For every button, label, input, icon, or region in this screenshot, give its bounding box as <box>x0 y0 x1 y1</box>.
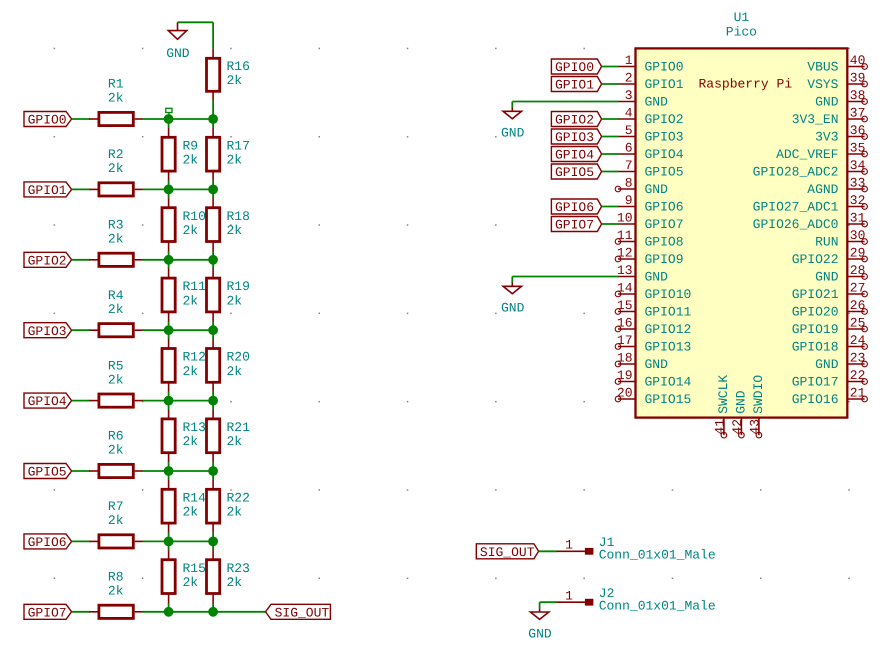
svg-text:2k: 2k <box>227 434 243 449</box>
U1 pin 16 (GPIO12) <box>615 316 691 338</box>
wire GPIO0 label to R1 <box>72 118 90 120</box>
svg-text:R2: R2 <box>108 147 124 162</box>
global label GPIO6 (ladder input) <box>24 534 72 550</box>
svg-text:14: 14 <box>617 281 633 296</box>
power symbol GND (U1 pin 3) <box>501 102 525 141</box>
U1 pin 31 (GPIO26_ADC0) <box>753 211 868 233</box>
svg-text:Conn_01x01_Male: Conn_01x01_Male <box>599 599 716 614</box>
resistor R5 2k <box>89 358 143 407</box>
svg-text:GPIO11: GPIO11 <box>645 305 692 320</box>
wire node row 3 down to R20 <box>212 330 214 339</box>
svg-text:GPIO17: GPIO17 <box>792 375 839 390</box>
svg-text:2k: 2k <box>183 153 199 168</box>
junction node row 6 col B <box>209 537 218 546</box>
svg-text:R11: R11 <box>183 279 207 294</box>
wire GND to U1 pin 13 <box>512 276 618 278</box>
wire R7 to ladder node row 6 <box>143 540 214 542</box>
U1 pin 28 (GND) <box>815 263 867 285</box>
svg-text:GPIO26_ADC0: GPIO26_ADC0 <box>753 217 839 232</box>
svg-text:GND: GND <box>734 390 749 414</box>
svg-text:2k: 2k <box>108 161 124 176</box>
wire GPIO1 label to R2 <box>72 188 90 190</box>
svg-text:2k: 2k <box>227 73 243 88</box>
global label GPIO5 (to U1 pin 7) <box>551 164 601 180</box>
svg-text:GND: GND <box>166 46 190 61</box>
resistor R8 2k <box>89 570 143 619</box>
svg-text:GPIO2: GPIO2 <box>28 253 67 268</box>
wire GND to J2 pin 1 <box>540 601 557 603</box>
svg-text:R9: R9 <box>183 138 199 153</box>
svg-text:GND: GND <box>645 95 669 110</box>
U1 pin 33 (AGND) <box>807 176 867 198</box>
wire node row 2 down to R19 <box>212 260 214 269</box>
svg-text:2k: 2k <box>227 153 243 168</box>
svg-text:26: 26 <box>850 298 866 313</box>
svg-text:2k: 2k <box>183 505 199 520</box>
svg-text:RUN: RUN <box>815 235 838 250</box>
wire R9 down to node row 1 <box>168 181 170 190</box>
wire GPIO3 label to R4 <box>72 329 90 331</box>
svg-text:GPIO6: GPIO6 <box>28 535 67 550</box>
svg-text:R1: R1 <box>108 77 124 92</box>
wire R2 to ladder node row 1 <box>143 188 214 190</box>
wire R19 down to node row 3 <box>212 321 214 330</box>
svg-text:AGND: AGND <box>807 182 838 197</box>
svg-text:GPIO10: GPIO10 <box>645 287 692 302</box>
svg-text:R15: R15 <box>183 561 206 576</box>
U1 pin 32 (GPIO27_ADC1) <box>753 193 868 215</box>
svg-text:2k: 2k <box>108 513 124 528</box>
svg-text:SWCLK: SWCLK <box>716 375 731 414</box>
svg-text:R16: R16 <box>227 59 250 74</box>
svg-text:VSYS: VSYS <box>807 77 838 92</box>
svg-text:34: 34 <box>850 158 866 173</box>
svg-text:GND: GND <box>815 95 839 110</box>
svg-text:VBUS: VBUS <box>807 60 838 75</box>
svg-text:23: 23 <box>850 351 866 366</box>
svg-text:GND: GND <box>645 182 669 197</box>
global label GPIO0 (ladder input) <box>24 112 72 128</box>
svg-text:U1: U1 <box>734 10 750 25</box>
svg-text:19: 19 <box>617 368 633 383</box>
global label GPIO1 (to U1 pin 2) <box>551 77 601 93</box>
U1 pin 5 (GPIO3) <box>618 123 684 145</box>
U1 pin 41 (SWCLK) <box>713 375 732 438</box>
svg-text:GPIO7: GPIO7 <box>645 217 684 232</box>
svg-text:GPIO8: GPIO8 <box>645 235 684 250</box>
junction node row 0 col A <box>164 115 173 124</box>
junction node row 5 col A <box>164 467 173 476</box>
net anchor square at node row 0 <box>166 108 172 119</box>
junction node row 7 col B <box>209 607 218 616</box>
U1 pin 1 (GPIO0) <box>618 53 684 75</box>
wire R3 to ladder node row 2 <box>143 259 214 261</box>
svg-text:1: 1 <box>565 538 573 553</box>
svg-text:R6: R6 <box>108 429 124 444</box>
junction node row 3 col B <box>209 326 218 335</box>
svg-text:31: 31 <box>850 211 866 226</box>
IC U1 Pico body <box>636 10 848 418</box>
svg-text:41: 41 <box>713 419 728 435</box>
resistor R10 2k <box>162 198 206 251</box>
wire R14 down to node row 6 <box>168 533 170 542</box>
U1 pin 37 (3V3_EN) <box>792 106 868 128</box>
svg-text:32: 32 <box>850 193 866 208</box>
svg-text:2k: 2k <box>227 505 243 520</box>
svg-text:10: 10 <box>617 211 633 226</box>
U1 pin 22 (GPIO17) <box>792 368 868 390</box>
svg-text:GPIO3: GPIO3 <box>555 130 594 145</box>
svg-text:R23: R23 <box>227 561 250 576</box>
resistor R13 2k <box>162 409 206 462</box>
resistor R9 2k <box>162 128 198 181</box>
svg-text:2k: 2k <box>108 91 124 106</box>
wire node row 4 down to R13 <box>168 401 170 410</box>
svg-text:GPIO0: GPIO0 <box>555 60 594 75</box>
global label GPIO3 (ladder input) <box>24 323 72 339</box>
svg-text:SIG_OUT: SIG_OUT <box>480 545 535 560</box>
connector J2 Conn_01x01_Male <box>557 586 716 614</box>
junction node row 1 col A <box>164 185 173 194</box>
svg-text:2k: 2k <box>227 223 243 238</box>
wire GPIO3 label to U1 pin 5 <box>602 136 619 138</box>
svg-text:1: 1 <box>625 53 633 68</box>
U1 pin 21 (GPIO16) <box>792 386 868 408</box>
svg-text:R3: R3 <box>108 218 124 233</box>
wire GPIO6 label to U1 pin 9 <box>602 206 619 208</box>
svg-text:GPIO7: GPIO7 <box>555 218 594 233</box>
U1 pin 20 (GPIO15) <box>615 386 691 408</box>
svg-text:GPIO16: GPIO16 <box>792 392 839 407</box>
svg-text:SIG_OUT: SIG_OUT <box>275 605 330 620</box>
junction node row 1 col B <box>209 185 218 194</box>
svg-text:SWDIO: SWDIO <box>751 375 766 414</box>
svg-text:Raspberry Pi: Raspberry Pi <box>699 76 793 91</box>
svg-text:24: 24 <box>850 333 866 348</box>
U1 pin 13 (GND) <box>617 263 668 285</box>
svg-text:GPIO7: GPIO7 <box>28 605 67 620</box>
svg-text:2k: 2k <box>183 364 199 379</box>
svg-text:R12: R12 <box>183 350 206 365</box>
resistor R17 2k <box>207 128 250 181</box>
svg-text:GPIO19: GPIO19 <box>792 322 839 337</box>
global label GPIO3 (to U1 pin 5) <box>551 129 601 145</box>
U1 pin 25 (GPIO19) <box>792 316 868 338</box>
U1 pin 15 (GPIO11) <box>615 298 691 320</box>
svg-text:GPIO5: GPIO5 <box>28 465 67 480</box>
svg-text:3V3_EN: 3V3_EN <box>792 112 839 127</box>
U1 pin 6 (GPIO4) <box>618 141 684 163</box>
U1 pin 17 (GPIO13) <box>615 333 691 355</box>
svg-text:GPIO2: GPIO2 <box>645 112 684 127</box>
U1 pin 36 (3V3) <box>815 123 867 145</box>
svg-text:GPIO3: GPIO3 <box>645 130 684 145</box>
wire R10 down to node row 2 <box>168 251 170 260</box>
svg-text:2k: 2k <box>183 575 199 590</box>
U1 pin 18 (GND) <box>615 351 668 373</box>
svg-text:R17: R17 <box>227 138 250 153</box>
U1 pin 30 (RUN) <box>815 228 867 250</box>
wire GPIO4 label to U1 pin 6 <box>602 153 619 155</box>
wire GPIO2 label to U1 pin 4 <box>602 118 619 120</box>
svg-text:GND: GND <box>815 270 839 285</box>
resistor R1 2k <box>89 77 143 126</box>
svg-text:R8: R8 <box>108 570 124 585</box>
U1 pin 43 (SWDIO) <box>748 375 767 438</box>
wire R23 down to node row 7 <box>212 603 214 612</box>
svg-text:21: 21 <box>850 386 866 401</box>
U1 pin 38 (GND) <box>815 88 867 110</box>
svg-text:6: 6 <box>625 141 633 156</box>
U1 pin 34 (GPIO28_ADC2) <box>753 158 868 180</box>
svg-text:2k: 2k <box>183 293 199 308</box>
wire GND to U1 pin 3 <box>512 101 618 103</box>
svg-text:GPIO20: GPIO20 <box>792 305 839 320</box>
global label GPIO7 (to U1 pin 10) <box>551 217 601 233</box>
global label GPIO2 (to U1 pin 4) <box>551 112 601 128</box>
svg-text:R10: R10 <box>183 209 206 224</box>
svg-text:GPIO5: GPIO5 <box>555 165 594 180</box>
resistor R18 2k <box>207 198 250 251</box>
svg-text:GPIO0: GPIO0 <box>28 113 67 128</box>
svg-text:Conn_01x01_Male: Conn_01x01_Male <box>599 548 716 563</box>
wire R21 down to node row 5 <box>212 462 214 471</box>
svg-text:GPIO14: GPIO14 <box>645 375 692 390</box>
svg-text:37: 37 <box>850 106 866 121</box>
svg-text:39: 39 <box>850 71 866 86</box>
wire R11 down to node row 3 <box>168 321 170 330</box>
svg-text:R13: R13 <box>183 420 206 435</box>
global label GPIO4 (ladder input) <box>24 393 72 409</box>
U1 pin 29 (GPIO22) <box>792 246 868 268</box>
svg-text:40: 40 <box>850 53 866 68</box>
global label GPIO6 (to U1 pin 9) <box>551 199 601 215</box>
svg-text:8: 8 <box>625 176 633 191</box>
svg-text:GPIO18: GPIO18 <box>792 340 839 355</box>
U1 pin 35 (ADC_VREF) <box>776 141 867 163</box>
junction node row 4 col A <box>164 396 173 405</box>
junction node row 0 col B <box>209 115 218 124</box>
svg-text:GPIO4: GPIO4 <box>28 394 67 409</box>
wire R13 down to node row 5 <box>168 462 170 471</box>
svg-text:12: 12 <box>617 246 633 261</box>
wire node row 2 down to R11 <box>168 260 170 269</box>
wire R15 down to node row 7 <box>168 603 170 612</box>
svg-text:36: 36 <box>850 123 866 138</box>
svg-text:2k: 2k <box>108 584 124 599</box>
svg-text:R18: R18 <box>227 209 250 224</box>
wire GPIO5 label to U1 pin 7 <box>602 171 619 173</box>
global label GPIO2 (ladder input) <box>24 252 72 268</box>
wire node row 6 down to R15 <box>168 541 170 550</box>
wire R6 to ladder node row 5 <box>143 470 214 472</box>
svg-text:R14: R14 <box>183 490 207 505</box>
wire R16 bottom to node row 0 <box>212 101 214 119</box>
svg-text:7: 7 <box>625 158 633 173</box>
resistor R7 2k <box>89 499 143 548</box>
wire node row 0 down to R17 <box>212 119 214 128</box>
svg-text:GPIO9: GPIO9 <box>645 252 684 267</box>
junction node row 4 col B <box>209 396 218 405</box>
svg-text:11: 11 <box>617 228 633 243</box>
wire node row 3 down to R12 <box>168 330 170 339</box>
wire GPIO6 label to R7 <box>72 540 90 542</box>
svg-text:2k: 2k <box>227 364 243 379</box>
svg-text:38: 38 <box>850 88 866 103</box>
junction node row 2 col B <box>209 255 218 264</box>
wire GPIO7 label to R8 <box>72 611 90 613</box>
svg-text:28: 28 <box>850 263 866 278</box>
U1 pin 24 (GPIO18) <box>792 333 868 355</box>
U1 pin 8 (GND) <box>615 176 668 198</box>
svg-text:4: 4 <box>625 106 633 121</box>
svg-text:35: 35 <box>850 141 866 156</box>
wire R1 to ladder node row 0 <box>143 118 214 120</box>
resistor R14 2k <box>162 480 206 533</box>
wire GPIO1 label to U1 pin 2 <box>602 83 619 85</box>
svg-text:13: 13 <box>617 263 633 278</box>
U1 pin 9 (GPIO6) <box>618 193 684 215</box>
wire GPIO7 label to U1 pin 10 <box>602 223 619 225</box>
resistor R21 2k <box>207 409 251 462</box>
svg-text:2k: 2k <box>183 223 199 238</box>
wire GPIO2 label to R3 <box>72 259 90 261</box>
svg-text:GND: GND <box>645 357 669 372</box>
svg-text:GPIO28_ADC2: GPIO28_ADC2 <box>753 165 839 180</box>
svg-text:R19: R19 <box>227 279 250 294</box>
svg-text:33: 33 <box>850 176 866 191</box>
svg-text:R4: R4 <box>108 288 124 303</box>
svg-text:GND: GND <box>645 270 669 285</box>
svg-text:GPIO15: GPIO15 <box>645 392 692 407</box>
U1 pin 23 (GND) <box>815 351 867 373</box>
U1 pin 10 (GPIO7) <box>617 211 684 233</box>
global label GPIO0 (to U1 pin 1) <box>551 59 601 75</box>
junction node row 7 col A <box>164 607 173 616</box>
svg-text:GND: GND <box>815 357 839 372</box>
U1 pin 3 (GND) <box>618 88 668 110</box>
wire GPIO5 label to R6 <box>72 470 90 472</box>
resistor R6 2k <box>89 429 143 478</box>
svg-text:GPIO1: GPIO1 <box>555 78 594 93</box>
resistor R11 2k <box>162 269 206 322</box>
U1 pin 42 (GND) <box>730 390 749 438</box>
junction node row 5 col B <box>209 467 218 476</box>
U1 pin 4 (GPIO2) <box>618 106 684 128</box>
svg-text:GND: GND <box>501 126 525 141</box>
resistor R23 2k <box>207 550 250 603</box>
svg-text:3: 3 <box>625 88 633 103</box>
svg-text:20: 20 <box>617 386 633 401</box>
svg-text:ADC_VREF: ADC_VREF <box>776 147 838 162</box>
svg-text:42: 42 <box>730 419 745 435</box>
global label GPIO4 (to U1 pin 6) <box>551 147 601 163</box>
svg-text:GPIO21: GPIO21 <box>792 287 839 302</box>
svg-text:GPIO6: GPIO6 <box>645 200 684 215</box>
svg-text:27: 27 <box>850 281 866 296</box>
junction node row 6 col A <box>164 537 173 546</box>
svg-text:15: 15 <box>617 298 633 313</box>
wire R12 down to node row 4 <box>168 392 170 401</box>
junction node row 2 col A <box>164 255 173 264</box>
svg-text:GPIO13: GPIO13 <box>645 340 692 355</box>
U1 pin 11 (GPIO8) <box>615 228 683 250</box>
wire R20 down to node row 4 <box>212 392 214 401</box>
svg-text:R7: R7 <box>108 499 124 514</box>
connector J1 Conn_01x01_Male <box>557 535 716 563</box>
wire GND net horizontal (top of ladder) <box>178 21 214 23</box>
resistor R19 2k <box>207 269 250 322</box>
wire R18 down to node row 2 <box>212 251 214 260</box>
svg-text:GPIO27_ADC1: GPIO27_ADC1 <box>753 200 839 215</box>
resistor R16 2k <box>207 49 250 101</box>
power symbol GND (U1 pin 13) <box>501 277 525 316</box>
svg-text:GPIO2: GPIO2 <box>555 113 594 128</box>
svg-text:2k: 2k <box>108 302 124 317</box>
U1 pin 19 (GPIO14) <box>615 368 691 390</box>
U1 pin 27 (GPIO21) <box>792 281 868 303</box>
svg-text:25: 25 <box>850 316 866 331</box>
global label SIG_OUT (to J1) <box>476 544 538 560</box>
resistor R4 2k <box>89 288 143 337</box>
svg-text:GND: GND <box>501 301 525 316</box>
svg-text:2k: 2k <box>108 443 124 458</box>
global label GPIO5 (ladder input) <box>24 464 72 480</box>
wire R22 down to node row 6 <box>212 533 214 542</box>
svg-text:30: 30 <box>850 228 866 243</box>
svg-text:GPIO4: GPIO4 <box>645 147 684 162</box>
U1 pin 26 (GPIO20) <box>792 298 868 320</box>
svg-text:GPIO3: GPIO3 <box>28 324 67 339</box>
U1 pin 7 (GPIO5) <box>618 158 684 180</box>
wire node row 1 down to R18 <box>212 189 214 198</box>
wire SIG_OUT label to J1 pin 1 <box>539 550 557 552</box>
U1 pin 40 (VBUS) <box>807 53 867 75</box>
wire down to R16 <box>212 22 214 49</box>
wire R17 down to node row 1 <box>212 181 214 190</box>
U1 pin 12 (GPIO9) <box>615 246 683 268</box>
svg-text:GPIO6: GPIO6 <box>555 200 594 215</box>
global label SIG_OUT (ladder output) <box>266 604 331 620</box>
junction node row 3 col A <box>164 326 173 335</box>
svg-text:2: 2 <box>625 71 633 86</box>
wire node row 5 down to R22 <box>212 471 214 480</box>
global label GPIO1 (ladder input) <box>24 182 72 198</box>
resistor R2 2k <box>89 147 143 196</box>
svg-text:R20: R20 <box>227 350 250 365</box>
svg-text:GPIO4: GPIO4 <box>555 148 594 163</box>
svg-text:2k: 2k <box>108 232 124 247</box>
svg-text:R22: R22 <box>227 490 250 505</box>
wire R4 to ladder node row 3 <box>143 329 214 331</box>
U1 pin 39 (VSYS) <box>807 71 867 93</box>
resistor R12 2k <box>162 339 206 392</box>
wire node row 5 down to R14 <box>168 471 170 480</box>
svg-text:17: 17 <box>617 333 633 348</box>
resistor R20 2k <box>207 339 250 392</box>
svg-text:5: 5 <box>625 123 633 138</box>
svg-text:GND: GND <box>528 626 552 641</box>
U1 pin 14 (GPIO10) <box>615 281 691 303</box>
resistor R3 2k <box>89 218 143 267</box>
svg-text:Pico: Pico <box>726 25 757 40</box>
svg-text:GPIO12: GPIO12 <box>645 322 692 337</box>
wire GPIO4 label to R5 <box>72 400 90 402</box>
wire node row 1 down to R10 <box>168 189 170 198</box>
wire node row 6 down to R23 <box>212 541 214 550</box>
svg-text:1: 1 <box>565 589 573 604</box>
svg-text:R5: R5 <box>108 358 124 373</box>
